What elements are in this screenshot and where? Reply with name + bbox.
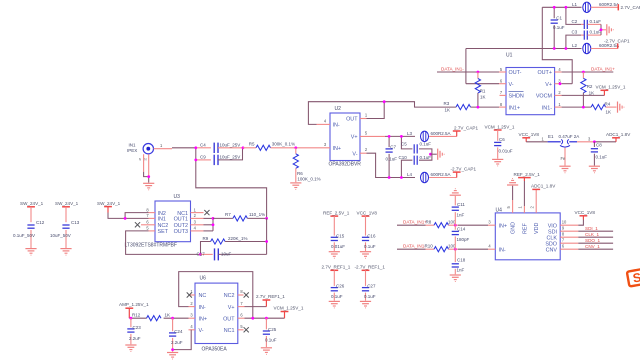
svg-text:DATA_IN1+: DATA_IN1+ (591, 67, 615, 72)
svg-text:SW_24V_1: SW_24V_1 (55, 201, 79, 206)
wire: IPEX pin1 to C4 node (154, 148, 173, 150)
ground at C24 (167, 353, 178, 360)
no-connect X on U3 pin6 NC2 (141, 224, 155, 226)
svg-text:REF_2.5V_1: REF_2.5V_1 (323, 210, 350, 215)
svg-text:IN-: IN- (199, 305, 206, 311)
svg-text:U6: U6 (200, 276, 207, 282)
capacitor C4 10uF_25V (196, 147, 211, 149)
svg-text:SDO_1: SDO_1 (585, 238, 601, 243)
svg-text:600R2.5A: 600R2.5A (599, 2, 619, 7)
svg-text:0.1uF: 0.1uF (420, 142, 432, 147)
connector IN1 IPEX (143, 144, 153, 154)
ground at R6 (290, 183, 301, 190)
svg-text:C26: C26 (336, 284, 345, 289)
capacitor C27 0.1uF on -2.7V_REF1_1 (362, 269, 370, 271)
svg-text:IN1-: IN1- (542, 105, 552, 111)
svg-text:IN+: IN+ (499, 223, 508, 229)
wire: U3 outputs tie (pins 2,3,4) (191, 217, 204, 219)
svg-text:OUT-: OUT- (509, 70, 522, 76)
svg-text:OUT+: OUT+ (537, 70, 552, 76)
node: junction C24/V- ground (171, 348, 174, 351)
svg-text:U4: U4 (496, 207, 503, 213)
svg-text:E1: E1 (548, 134, 554, 139)
svg-text:2.2uF: 2.2uF (129, 336, 141, 341)
resistor R10 100 (434, 247, 449, 252)
ground (inverted) above C11 (450, 189, 461, 196)
svg-text:C9: C9 (200, 154, 206, 159)
svg-text:IN1: IN1 (129, 143, 137, 148)
node: junction feedback at OUT (251, 317, 254, 320)
capacitor C17 10uF (201, 253, 213, 255)
ground at C25 (261, 348, 272, 355)
svg-text:C1: C1 (556, 15, 562, 20)
resistor R6 100K_0.1% (vertical to gnd) (295, 148, 297, 154)
svg-text:2.7V_REF1_1: 2.7V_REF1_1 (322, 265, 351, 270)
svg-text:C17: C17 (197, 252, 206, 257)
no-connect X on U6 pin5 NC1 (238, 329, 244, 331)
capacitor C12 0.1uF_50V with SW_24V_1 flag (27, 206, 35, 208)
power flag VCC_1V8 at E1 (522, 137, 530, 139)
wire: V+ feed from top rail to U1 V+ (542, 7, 572, 83)
svg-text:LT3092ETS8#TRMPBF: LT3092ETS8#TRMPBF (125, 243, 177, 249)
svg-text:0.1uF: 0.1uF (331, 294, 343, 299)
logo (orange S badge, clipped at right edge) (627, 268, 640, 287)
svg-text:NC2: NC2 (224, 293, 235, 299)
svg-text:C5: C5 (401, 142, 407, 147)
svg-text:180pF: 180pF (457, 237, 470, 242)
svg-text:DATA_IN1-: DATA_IN1- (441, 67, 464, 72)
wire: U6 feedback loop IN- to OUT (189, 306, 196, 308)
svg-text:C11: C11 (457, 202, 465, 207)
capacitor C3 0.1uF (581, 34, 584, 36)
svg-text:0.1uF: 0.1uF (364, 244, 376, 249)
svg-text:C7: C7 (390, 144, 396, 149)
svg-text:L3: L3 (407, 131, 413, 136)
wire: -2.7V rail drop to U1 V- (465, 49, 467, 84)
capacitor C11 1nF (454, 196, 456, 206)
svg-text:0.1uF_50V: 0.1uF_50V (13, 233, 35, 238)
wire: C2 left leg from top rail (566, 7, 581, 24)
wire: E1 pin3 to ADC1_1.8V (577, 141, 594, 143)
power flag -2.7V_CAP1 (617, 44, 619, 49)
capacitor C13 10uF_50V with SW_24V_1 flag (62, 206, 70, 208)
wire: IPEX shield pins to ground (143, 154, 145, 172)
capacitor C26 0.1uF on 2.7V_REF1_1 (330, 269, 338, 271)
svg-text:C14: C14 (457, 226, 466, 231)
power flag SW_24V_1 feeding U3 (104, 206, 112, 208)
node: junction SW feed (124, 217, 127, 220)
U4 REF pin to flag REF_2.5V_1 (523, 206, 525, 213)
svg-text:1nF: 1nF (457, 267, 465, 272)
svg-text:IN-: IN- (499, 247, 506, 253)
node: junction R7 right on output loop (265, 217, 268, 220)
svg-text:R12: R12 (132, 312, 141, 317)
svg-text:C15: C15 (336, 233, 345, 238)
svg-text:C16: C16 (367, 233, 376, 238)
node: junctions at C4/C9 left (194, 146, 197, 149)
power flag AMP_1.25V_1 (125, 307, 133, 309)
svg-text:S: S (632, 270, 640, 285)
svg-text:0.01uF: 0.01uF (331, 244, 345, 249)
svg-text:IN1+: IN1+ (509, 105, 521, 111)
no-connect X on U3 pin1 NC1 (191, 212, 204, 214)
resistor R1 1K (vertical, OUT- to IN1+) (477, 72, 479, 79)
node: junctions R9 row (265, 240, 268, 243)
wire: DATA_IN1- into U1 pin5 OUT- (437, 71, 499, 73)
ground at C23 (125, 345, 136, 352)
wire: U3 SET pin5 loop to R9/C17 (149, 230, 156, 232)
svg-text:VCM_1.25V_1: VCM_1.25V_1 (274, 305, 304, 310)
svg-text:1K: 1K (480, 95, 486, 100)
node: junction at C8 (593, 140, 596, 143)
inductor L2 600R2.5A ferrite bead (583, 43, 591, 53)
resistor R7 110_1% (213, 217, 233, 219)
svg-text:C23: C23 (133, 325, 142, 330)
svg-text:V+: V+ (545, 82, 552, 88)
wire: U4 CLK to CLK_1 (560, 236, 578, 238)
U4 VDD pin to flag ADC1_1.8V (535, 189, 537, 213)
svg-text:U3: U3 (174, 194, 181, 200)
wire: right vertical down to R9/C17 (266, 218, 268, 254)
ground IPEX shield (143, 183, 154, 190)
inductor L4 600R2.5A ferrite bead (421, 172, 429, 182)
capacitor C14 180pF (454, 225, 456, 230)
svg-text:VCM_1.25V_1: VCM_1.25V_1 (485, 124, 515, 129)
svg-text:REF_2.5V_1: REF_2.5V_1 (514, 172, 541, 177)
svg-text:ADC1_1.8V: ADC1_1.8V (531, 184, 556, 189)
node: junction C24 tap (171, 317, 174, 320)
svg-text:VCC_1V8: VCC_1V8 (519, 132, 540, 137)
svg-text:IPEX: IPEX (127, 148, 137, 153)
svg-text:C27: C27 (367, 284, 376, 289)
svg-text:C3: C3 (572, 30, 578, 35)
svg-text:SW_24V_1: SW_24V_1 (97, 201, 121, 206)
wire: main row into U2 IN+ (296, 147, 330, 149)
svg-text:ADC1_1.8V: ADC1_1.8V (606, 132, 631, 137)
svg-text:600R2.5A: 600R2.5A (431, 172, 451, 177)
node: junction C14/C18 column on IN- (454, 248, 457, 251)
capacitor C5 0.1uF (V+ to gnd) (401, 136, 412, 149)
ground below C18 (450, 275, 461, 282)
svg-text:C24: C24 (174, 329, 183, 334)
node: junction at R2 top (582, 71, 585, 74)
svg-text:10: 10 (562, 220, 567, 225)
filter E1 0.47uF 2A feedthrough (526, 141, 547, 143)
svg-text:1K: 1K (445, 108, 451, 113)
svg-text:NC1: NC1 (224, 328, 235, 334)
svg-text:R10: R10 (425, 244, 434, 249)
op-amp U1 (fully differential driver) (506, 68, 555, 115)
wire: from U2 loop step to R3 (384, 102, 456, 107)
wire: U1 pin7 SHDN stub (500, 94, 507, 96)
U4 GND pin to inverted ground (512, 200, 514, 213)
svg-text:C6: C6 (499, 137, 505, 142)
wire: U6 pin4 V- down to ground (189, 329, 196, 331)
node: junction dots at x=565.9 (565, 6, 568, 9)
svg-text:L1: L1 (572, 2, 578, 7)
svg-text:2.2uF: 2.2uF (171, 340, 183, 345)
svg-text:10uF_25V: 10uF_25V (220, 154, 241, 159)
resistor R5 300K_0.1% (243, 147, 256, 149)
svg-text:110_1%: 110_1% (249, 212, 265, 217)
svg-text:CNV_1: CNV_1 (585, 244, 600, 249)
svg-text:V+: V+ (228, 305, 235, 311)
ground (sideways) for C2/C3 (607, 24, 614, 35)
node: junction C4/C9 right (242, 146, 245, 149)
svg-text:IN-: IN- (333, 123, 340, 129)
svg-text:IN1: IN1 (158, 217, 166, 223)
node: junction C23 tap (130, 317, 133, 320)
svg-text:NC: NC (199, 293, 207, 299)
svg-text:600R2.5A: 600R2.5A (431, 131, 451, 136)
wire: R3 to U1 pin8 IN1+ (471, 106, 500, 108)
svg-text:0.1uF: 0.1uF (596, 154, 608, 159)
wire: C4/C9 left node down to U3 output loop (196, 148, 267, 219)
wire: U6 pin7 V+ to 2.7V_REF1_1 flag (238, 306, 245, 308)
svg-text:L2: L2 (572, 43, 578, 48)
wire: U2 pin5 V+ rail (360, 135, 385, 137)
svg-text:AMP_1.25V_1: AMP_1.25V_1 (119, 302, 149, 307)
power flag VCM_1.25V_1 at U6 OUT (284, 312, 286, 319)
svg-text:R1: R1 (480, 88, 486, 93)
wire: U2 pin2 V- down to L4 rail (360, 152, 367, 154)
wire: AMP to R12 (129, 317, 146, 319)
wire: U1 pin1 IN1- to R4 (555, 106, 562, 108)
svg-text:1K: 1K (589, 90, 595, 95)
svg-text:GND: GND (511, 222, 517, 234)
svg-text:R3: R3 (444, 101, 450, 106)
capacitor C7 0.1uF (between V+ and V- rails) (388, 136, 390, 147)
svg-text:220K_1%: 220K_1% (228, 236, 248, 241)
node: junction dots on rails at C1 (553, 6, 556, 9)
svg-text:IN+: IN+ (199, 316, 208, 322)
wire: C3 left leg from bottom rail (566, 35, 581, 48)
regulator U3 LT3092 (155, 201, 191, 242)
svg-text:0.1uF: 0.1uF (590, 30, 602, 35)
resistor R8 100 (434, 223, 449, 228)
svg-text:R6: R6 (297, 171, 303, 176)
wire: U1 pin3 V+ (555, 83, 562, 85)
ground at C6 (492, 159, 503, 166)
node: junction C25 tap (265, 317, 268, 320)
svg-text:R7: R7 (225, 212, 231, 217)
no-connect X on U6 pin1 NC (190, 294, 195, 296)
svg-text:U2: U2 (335, 106, 342, 112)
ground (sideways) after R4 (618, 102, 625, 113)
svg-text:300K_0.1%: 300K_0.1% (272, 142, 295, 147)
wire: U4 CNV to CNV_1 (560, 248, 578, 250)
ADC U4 (495, 213, 560, 260)
wire: U6 pin6 OUT to VCM flag (238, 317, 245, 319)
wire: C2/C3 right legs join (600, 24, 602, 35)
svg-text:IN+: IN+ (333, 146, 342, 152)
svg-text:R2: R2 (587, 84, 593, 89)
svg-text:2.7V_CAP1: 2.7V_CAP1 (621, 5, 640, 10)
svg-text:-2.7V_CAP1: -2.7V_CAP1 (604, 39, 630, 44)
svg-text:SW_24V_1: SW_24V_1 (20, 201, 44, 206)
wire: U1 pin4 OUT+ to DATA_IN1+ (555, 71, 562, 73)
capacitor C9 10uF_25V (196, 159, 211, 161)
capacitor C8 0.1uF (593, 142, 595, 147)
no-connect X on U6 pin8 NC2 (238, 294, 244, 296)
capacitor C16 0.1uF on VCC_1V8 (362, 215, 370, 217)
svg-text:R9: R9 (203, 236, 209, 241)
svg-text:DATA_IN1-: DATA_IN1- (403, 244, 426, 249)
svg-text:C25: C25 (268, 327, 277, 332)
capacitor C1 0.1uF (553, 7, 555, 18)
resistor R2 1K (vertical, OUT+ to IN1-) (582, 72, 584, 78)
node: junction at V+ pin (559, 82, 562, 85)
svg-text:2.7V_CAP1: 2.7V_CAP1 (454, 125, 478, 130)
svg-text:0.1uF: 0.1uF (590, 19, 602, 24)
svg-text:V-: V- (509, 82, 514, 88)
svg-text:REF: REF (522, 223, 528, 234)
op-amp U2 OPA392DBVR (330, 113, 360, 161)
svg-text:VOCM: VOCM (536, 94, 553, 100)
svg-text:VDD: VDD (534, 223, 540, 234)
ground at E1 (559, 166, 570, 173)
svg-text:0.01uF: 0.01uF (499, 149, 513, 154)
svg-text:V-: V- (199, 328, 204, 334)
svg-text:R5: R5 (249, 142, 255, 147)
wire: U4 SDI to SDI_1 (560, 230, 578, 232)
svg-text:10uF: 10uF (221, 252, 232, 257)
capacitor C18 1nF (454, 249, 456, 262)
svg-text:SHDN: SHDN (509, 94, 524, 100)
svg-text:0.1uF: 0.1uF (386, 156, 398, 161)
svg-text:OUT: OUT (223, 316, 235, 322)
svg-text:0.47uF 2A: 0.47uF 2A (559, 134, 580, 139)
svg-text:U1: U1 (506, 53, 513, 59)
wire: U2 feedback loop OUT to IN- (308, 102, 384, 125)
svg-text:V+: V+ (351, 135, 358, 141)
node: junction C2/C3 to ground (600, 28, 603, 31)
ground (sideways) for C5/C10 (438, 149, 445, 160)
svg-text:VCM_1.25V_1: VCM_1.25V_1 (596, 85, 626, 90)
node: junction U2 loop (383, 100, 386, 103)
resistor R12 1K (147, 316, 162, 321)
capacitor C23 2.2uF (130, 318, 132, 327)
svg-text:C8: C8 (596, 143, 602, 148)
node: junction R1/R3/pin8 (477, 106, 480, 109)
op-amp U6 OPA350EA (195, 283, 238, 343)
wire: U4 SDO to SDO_1 (560, 242, 578, 244)
svg-text:100K_0.1%: 100K_0.1% (297, 177, 320, 182)
resistor R3 1K (horizontal) (456, 105, 471, 110)
resistor R9 220K_1% (201, 242, 211, 255)
node: junction shield (147, 175, 150, 178)
svg-text:OUT: OUT (346, 117, 358, 123)
power flag VCM_1.25V_1 at VOCM (601, 89, 609, 91)
svg-text:10uF_25V: 10uF_25V (220, 142, 241, 147)
wire: U2 OUT pin1 riser (360, 118, 367, 120)
node: junction at R1 top (477, 71, 480, 74)
svg-text:C13: C13 (71, 220, 80, 225)
svg-text:R8: R8 (426, 220, 432, 225)
svg-text:0.1uF: 0.1uF (420, 155, 432, 160)
svg-text:OPA392DBVR: OPA392DBVR (329, 161, 362, 167)
svg-text:VCC_1V8: VCC_1V8 (357, 210, 378, 215)
inductor L1 600R2.5A ferrite bead (583, 2, 591, 12)
ground (inverted) at U4 GND (507, 179, 518, 186)
wire: R12 into U6 IN+ (164, 317, 189, 319)
svg-text:1K: 1K (165, 312, 171, 317)
svg-text:OUT1: OUT1 (174, 217, 188, 223)
svg-text:Fe: Fe (561, 156, 567, 161)
svg-text:C2: C2 (572, 19, 578, 24)
svg-text:C4: C4 (200, 142, 206, 147)
node: junction C5/C10 to ground (429, 153, 432, 156)
svg-text:R4: R4 (605, 101, 611, 106)
wire: DATA_IN1+ row into U4 IN+ with R8 (397, 224, 426, 226)
svg-text:L4: L4 (407, 172, 413, 177)
svg-text:C12: C12 (36, 220, 45, 225)
power flag ADC1_1.8V at E1 output (615, 138, 617, 142)
capacitor C2 0.1uF (581, 23, 584, 25)
wire: U1 pin6 V- (466, 83, 499, 85)
svg-text:2.7V_REF1_1: 2.7V_REF1_1 (256, 294, 285, 299)
svg-text:CLK_1: CLK_1 (585, 232, 599, 237)
svg-text:SET: SET (158, 229, 169, 235)
capacitor C15 0.01uF on REF_2.5V_1 (330, 215, 338, 217)
wire: -2.7V bottom rail (466, 48, 582, 50)
svg-text:C18: C18 (457, 257, 466, 262)
svg-text:OUT3: OUT3 (174, 229, 188, 235)
wire: SW_24V_1 to IN1/IN2 (108, 213, 149, 219)
svg-text:0.1uF: 0.1uF (553, 25, 565, 30)
power flag -2.7V_CAP1 at L4 (456, 172, 458, 177)
svg-text:V-: V- (352, 151, 357, 157)
node: junction at R6 top (294, 146, 297, 149)
svg-text:1K: 1K (606, 109, 612, 114)
svg-text:OUT2: OUT2 (174, 223, 188, 229)
svg-text:VCC_1V8: VCC_1V8 (575, 210, 596, 215)
capacitor C24 2.2uF (172, 318, 174, 331)
svg-text:CNV: CNV (546, 247, 558, 253)
svg-text:-2.7V_REF1_1: -2.7V_REF1_1 (355, 265, 386, 270)
svg-text:600R2.5A: 600R2.5A (599, 43, 619, 48)
wire: U4 VIO to VCC_1V8 flag (560, 224, 578, 226)
svg-text:10uF_50V: 10uF_50V (50, 233, 71, 238)
svg-text:-2.7V_CAP1: -2.7V_CAP1 (451, 166, 477, 171)
power flag 2.7V_CAP1 (617, 4, 619, 10)
svg-text:SDI_1: SDI_1 (585, 226, 598, 231)
svg-text:C10: C10 (399, 155, 408, 160)
svg-text:0.1uF: 0.1uF (265, 338, 277, 343)
svg-text:1nF: 1nF (457, 213, 465, 218)
capacitor C6 0.01uF on VCM_1.25V_1 (494, 129, 502, 131)
svg-text:OPA350EA: OPA350EA (202, 346, 228, 352)
node: junctions at output tie (212, 217, 215, 220)
capacitor C25 0.1uF (265, 318, 267, 329)
power flag 2.7V_CAP1 at L3 (456, 131, 458, 136)
inductor L3 600R2.5A ferrite bead (421, 131, 429, 141)
svg-text:DATA_IN1+: DATA_IN1+ (403, 220, 427, 225)
svg-text:0.1uF: 0.1uF (364, 294, 376, 299)
node: junction C11/C14 column on IN+ (454, 224, 457, 227)
wire: U1 pin2 VOCM to flag (555, 94, 562, 96)
capacitor C10 0.1uF (V- to gnd) (401, 160, 412, 177)
wire: +2.7V top rail (542, 6, 581, 8)
node: junction R2 bottom on IN1- (582, 106, 585, 109)
resistor R4 1K (horizontal) (591, 105, 606, 110)
ground at C8 (589, 166, 600, 173)
wire: DATA_IN1- row into U4 IN- with R10 (397, 248, 426, 250)
svg-text:NC2: NC2 (158, 223, 169, 229)
